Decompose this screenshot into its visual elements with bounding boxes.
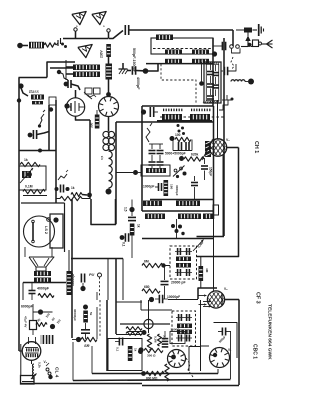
pickup symbol TA3 triangle [78,39,96,57]
node sr top [83,305,88,310]
svg-text:CH 1: CH 1 [253,141,259,153]
svg-text:1,5: 1,5 [124,207,128,212]
ground GND1 [119,63,129,74]
label CBC1 [252,344,258,359]
resistor R6 [20,158,40,167]
resistor R24 [138,347,163,357]
wire mid drop [213,219,215,288]
pickup symbol TA1 triangle [72,6,90,28]
label R11 value [191,153,199,157]
label V8 [228,348,232,352]
wire cathode rail [89,120,91,199]
resistor R14 [142,285,160,293]
wire mid right edge [213,106,215,219]
wire sr drop [72,342,74,381]
resistor R10 AVC [170,133,192,142]
electrode arrow V6 a [27,337,29,344]
wire lamp row [120,323,170,325]
svg-text:5k: 5k [89,312,93,316]
coil L8 osc b [190,114,210,120]
wire bass curve [21,88,28,96]
capacitor C1 coupling [125,25,128,35]
wire rise to C1 [109,31,124,39]
antenna symbol [262,40,273,48]
svg-text:50k: 50k [163,335,167,340]
wire bus drop d [122,259,124,301]
wire CH1 anode [227,147,239,149]
wire R9 down [131,236,133,259]
resistor R25 vert [165,364,169,381]
wire top corner [232,30,234,46]
svg-text:1k: 1k [24,158,28,162]
node C3 junction [64,82,69,87]
label SR [84,343,90,348]
svg-text:LS 2: LS 2 [44,226,48,234]
wire cbc top box [214,323,238,359]
capacitor C15 [201,158,208,180]
switch S4 wiper arrow [245,33,250,48]
resistor R15 vert [199,257,210,288]
wire ant box [232,48,241,53]
node bass lower [17,98,21,102]
label C12 value [165,152,186,156]
wire det out [168,299,198,301]
label C1 value [132,48,136,73]
svg-text:V₅: V₅ [224,287,228,291]
tube V2 CH1 [201,139,235,156]
label C25 value [21,305,33,309]
label Bass [29,89,40,94]
capacitor C20 [221,64,236,75]
svg-text:30000pF: 30000pF [73,309,77,321]
capacitor C31 pair [176,314,192,321]
svg-text:6M: 6M [144,260,149,264]
svg-text:230V: 230V [100,49,104,58]
electrode arrow a [199,294,207,296]
svg-text:1k: 1k [134,348,138,352]
wire TR1 left leads [66,60,73,80]
node C10 [80,286,85,291]
svg-text:150pF: 150pF [209,167,213,176]
wire bus drop b [107,259,109,301]
svg-text:6000pF: 6000pF [21,305,33,309]
tube V6 CL4 [19,342,41,361]
resistor R13 [142,260,166,268]
wire mid column [55,100,57,203]
svg-text:10000pF: 10000pF [167,295,180,299]
speaker magnet box [47,214,63,248]
wire V6 bottom corner [22,379,34,382]
wire branch vert [49,105,53,150]
svg-text:20000 pF: 20000 pF [171,281,186,285]
wire osc left edge [141,106,143,211]
resistor R21 pair [126,327,142,336]
capacitor C30 [115,338,123,352]
wire band base [146,63,213,65]
switch S5 contacts [46,363,53,379]
wire corner nest [197,236,225,238]
wire dashed diag [186,358,193,377]
lamp DL dial [144,300,153,333]
wire IF2 dashed box [172,311,196,346]
wire CF3 out [225,299,239,301]
capacitor C22 pair [175,269,192,276]
transformer TR1 secondary [73,72,100,78]
wire row [19,149,56,153]
svg-text:Bass: Bass [29,89,40,94]
capacitor C10 [81,274,84,287]
terminal A1 [230,45,234,49]
wire dashed drop [99,300,101,337]
label C15 value [209,167,213,176]
electrode arrow b [199,303,207,305]
svg-text:1k: 1k [137,224,141,228]
wire top bus [129,29,233,31]
wire gang link dashed [161,64,196,103]
node sr [72,337,81,342]
wire right rail 2 [197,148,239,257]
coil L11 b [176,201,200,207]
resistor R2 volume [100,44,111,58]
node cluster [177,124,186,135]
switch S2 [58,170,68,180]
wire det box dashed [170,246,197,279]
node feed [143,68,149,74]
svg-text:0,1M: 0,1M [154,336,158,343]
label R26 value [146,377,158,381]
tube V1a triode [66,98,84,116]
terminal A2 [236,45,240,49]
node L13 [248,79,254,85]
switch S4 contact box [247,40,261,47]
wire cbc box [189,300,209,371]
label C34 value [218,335,227,344]
wire rail D [142,385,239,387]
node ant junction [212,46,218,57]
svg-text:300: 300 [90,122,94,128]
coil L22 a [165,59,182,64]
trimmer C5 [20,168,33,183]
tube V1b hexode [99,97,119,117]
svg-text:1k: 1k [71,186,75,190]
wire osc top line [142,105,213,107]
coil L7 osc a [162,114,182,120]
wire osc bottom [150,199,213,201]
wire drop x107 [106,300,108,371]
coil L12 c [203,214,213,220]
wire rail B [73,380,231,381]
wire U-bottom [91,199,116,225]
capacitor C27 [41,335,53,344]
svg-text:4000pF: 4000pF [37,287,50,291]
svg-text:680: 680 [144,285,150,289]
wire steps dashed [219,98,234,111]
wire bus drop c [115,259,117,335]
wire heater box [108,339,142,371]
svg-text:47µF 4V: 47µF 4V [24,316,28,327]
svg-text:0,1: 0,1 [122,242,126,247]
label CF3 [255,292,261,304]
resistor R22 vert [147,334,157,350]
wire to terminal [56,38,67,48]
electrode arrow V6 b [34,337,36,344]
resistor R11 [179,156,204,161]
wire IF can hatch [203,62,219,102]
capacitor C24 [155,295,168,304]
svg-text:SR: SR [84,343,90,348]
coil L17 [177,330,192,335]
coil L11 a [143,201,162,207]
svg-text:PU: PU [89,273,95,277]
capacitor C34 [218,328,231,336]
wire box top-left [19,77,48,79]
label C23 value [171,281,186,285]
capacitor C19 stack [207,63,214,103]
svg-text:180: 180 [170,184,174,189]
wire spk box [23,283,66,301]
wire det link [166,265,171,267]
switch S6 squiggle [146,123,152,142]
wire stack top [149,143,163,145]
terminal PU [98,273,102,296]
wire IF row line 2 [142,238,213,240]
resistor R18 vert [83,311,93,323]
wire band right edge [212,38,214,106]
label PU [89,273,95,277]
label C16 value [143,185,154,189]
svg-text:CL 4: CL 4 [54,367,60,378]
terminal T1 [74,28,77,38]
coil L12 b [178,214,201,220]
tube V8 CBC1 [210,348,230,368]
capacitor C33 [162,331,169,347]
wire dashed mech [231,57,234,69]
node can tap [199,62,204,86]
svg-text:10000pF: 10000pF [71,273,75,286]
resistor R26 [146,371,164,375]
coil tick marks a [163,109,182,112]
ground GND2 [253,24,264,36]
switch S1 wave-band [38,110,45,128]
resistor R3 bass [32,101,43,104]
node psu b [50,324,55,329]
coil L3 bass [31,95,44,100]
wire osc coil base [157,120,212,122]
svg-text:CBC 1: CBC 1 [252,344,258,359]
coil L14 det [176,257,191,262]
wire CH1 cathode [222,156,224,237]
wire lamp row2 [128,330,147,335]
wire small box bass [49,97,56,105]
node input junction [17,43,23,49]
capacitor C12b [173,140,192,151]
mains plug arrow [31,374,37,380]
label C2 value [136,77,140,90]
label det value [197,240,205,248]
wire V6 cathode [31,360,33,364]
capacitor C4 tone [28,130,49,139]
capacitor C3 [68,80,71,88]
wire small box [213,205,219,215]
wire box inner edge [50,67,76,69]
label CH1 [253,141,259,153]
resistor R9 [130,224,141,236]
capacitor C19b stack [213,65,219,96]
label C7 value [37,287,50,291]
svg-text:0,2k: 0,2k [38,362,42,368]
resistor R19 SR [81,337,97,341]
wire right rail [223,38,225,236]
wire rail C [21,383,142,385]
wire CF3 box [198,288,217,299]
terminal T2 [107,29,110,39]
svg-text:V₂: V₂ [226,138,230,142]
svg-text:2000Ω: 2000Ω [171,328,181,332]
svg-text:5000+5000pF: 5000+5000pF [165,152,186,156]
svg-text:0,1M: 0,1M [25,185,33,189]
wire R4 stub [96,110,98,115]
wire row 302 [116,301,142,303]
wire bus row [71,258,123,260]
label V5 [224,287,228,291]
wire band box outline [151,38,213,54]
capacitor C8 electrolytic [124,200,137,221]
wire CH1 drop [217,100,219,139]
coil L1 input choke [29,42,44,49]
node osc [141,109,146,114]
resistor R7 [23,185,45,194]
svg-text:1000pF: 1000pF [143,185,154,189]
wire dashed gang line [160,116,224,118]
label title [267,304,273,360]
wire left rail [18,78,20,352]
label V2 [226,138,230,142]
capacitor C26 electrolytic [30,304,53,335]
power noise filter block [236,28,252,33]
capacitor C12a [173,140,182,151]
electrode arrows top [203,300,211,307]
label C26 value [24,316,28,327]
resistor R27 [56,196,90,200]
wire drop x97 [96,307,98,339]
label V6 [44,360,48,364]
resistor R4 cathode [90,115,100,129]
resistor R23 vert [158,334,167,346]
wire IF can outer [204,62,221,103]
wire rail A [92,369,218,374]
coil L10 box [141,165,170,176]
speaker cone [29,257,54,271]
wire box corner upper [47,62,75,78]
resistor R20 vert [128,346,138,361]
transformer TR2 output primary [34,271,51,276]
coil L9 variable [202,139,214,161]
wire choke up [68,250,70,271]
coil L12 a [145,214,165,220]
wire spk leads [25,247,52,257]
node IF dots [171,224,185,235]
wire big box left edge [115,122,117,224]
label CL4 [54,367,60,378]
node rail [141,371,146,376]
wire ctrl box [19,166,46,190]
wire input lead [22,45,28,47]
capacitor C9 [120,233,129,246]
svg-text:TELEFUNKEN 664 GWK: TELEFUNKEN 664 GWK [267,304,273,360]
wire det arrow [193,240,204,252]
wire S-link [57,70,68,80]
coil L23 heater spring [33,362,42,379]
wire R2 to transformer [108,57,110,64]
capacitor C18 antenna [218,42,226,51]
wire control box bottom [23,195,47,197]
speaker LS ring [24,216,55,247]
coil L16 [177,324,192,329]
coil tick marks b [191,109,210,112]
wire cbc drop [230,332,232,380]
wire rail A stub [91,346,93,374]
coil L21 a [165,50,182,55]
wire big box top edge [116,121,213,123]
wire L2 down to tube [108,80,110,98]
node grid line [116,170,141,175]
coil L2 vertical [106,64,113,80]
svg-text:100: 100 [175,133,181,137]
wire grid caps [64,90,111,109]
tube V7 output [168,350,186,368]
resistor R12 [164,180,169,196]
svg-text:0,5: 0,5 [100,155,104,160]
node L5 bottom [106,189,112,195]
coil L13 ant [231,80,248,82]
pickup symbol TA2 triangle [92,6,110,28]
wire band dashed [153,48,211,50]
svg-text:300 Ω: 300 Ω [147,354,156,358]
capacitor C11 padder [150,107,158,117]
svg-text:620k: 620k [191,153,199,157]
box 2000 ohm [170,328,185,344]
transformer TR2 output secondary [34,278,51,283]
svg-text:CF 3: CF 3 [255,292,261,304]
transformer TR1 primary [73,65,100,71]
coil L20 band top [156,35,173,41]
wire input bus [63,38,108,40]
wire rail stub [20,344,22,376]
wire bus drop a [71,199,73,338]
wire box bottom mid [141,300,172,310]
label C10 value [71,273,75,286]
capacitor C14 stack right [157,144,164,169]
wire speaker top row [21,202,65,204]
wire tone boxes [85,88,100,97]
capacitor C7 [29,283,36,301]
coil L15 det [176,263,191,268]
label C24 value [167,295,180,299]
wire R13 drop [164,266,166,281]
node bass tap [18,83,23,88]
svg-text:V₆: V₆ [44,360,48,364]
label LS [44,226,48,234]
capacitor C13 stack left [149,144,156,169]
node det out [149,297,154,302]
svg-text:4000pF: 4000pF [136,77,140,90]
capacitor C2 bypass [127,66,143,75]
resistor R5 heater [71,186,87,197]
capacitor C21 pair [175,248,192,255]
tube V5 CF3 [199,291,233,308]
capacitor C16 [155,183,162,191]
label C17 value [175,185,179,196]
